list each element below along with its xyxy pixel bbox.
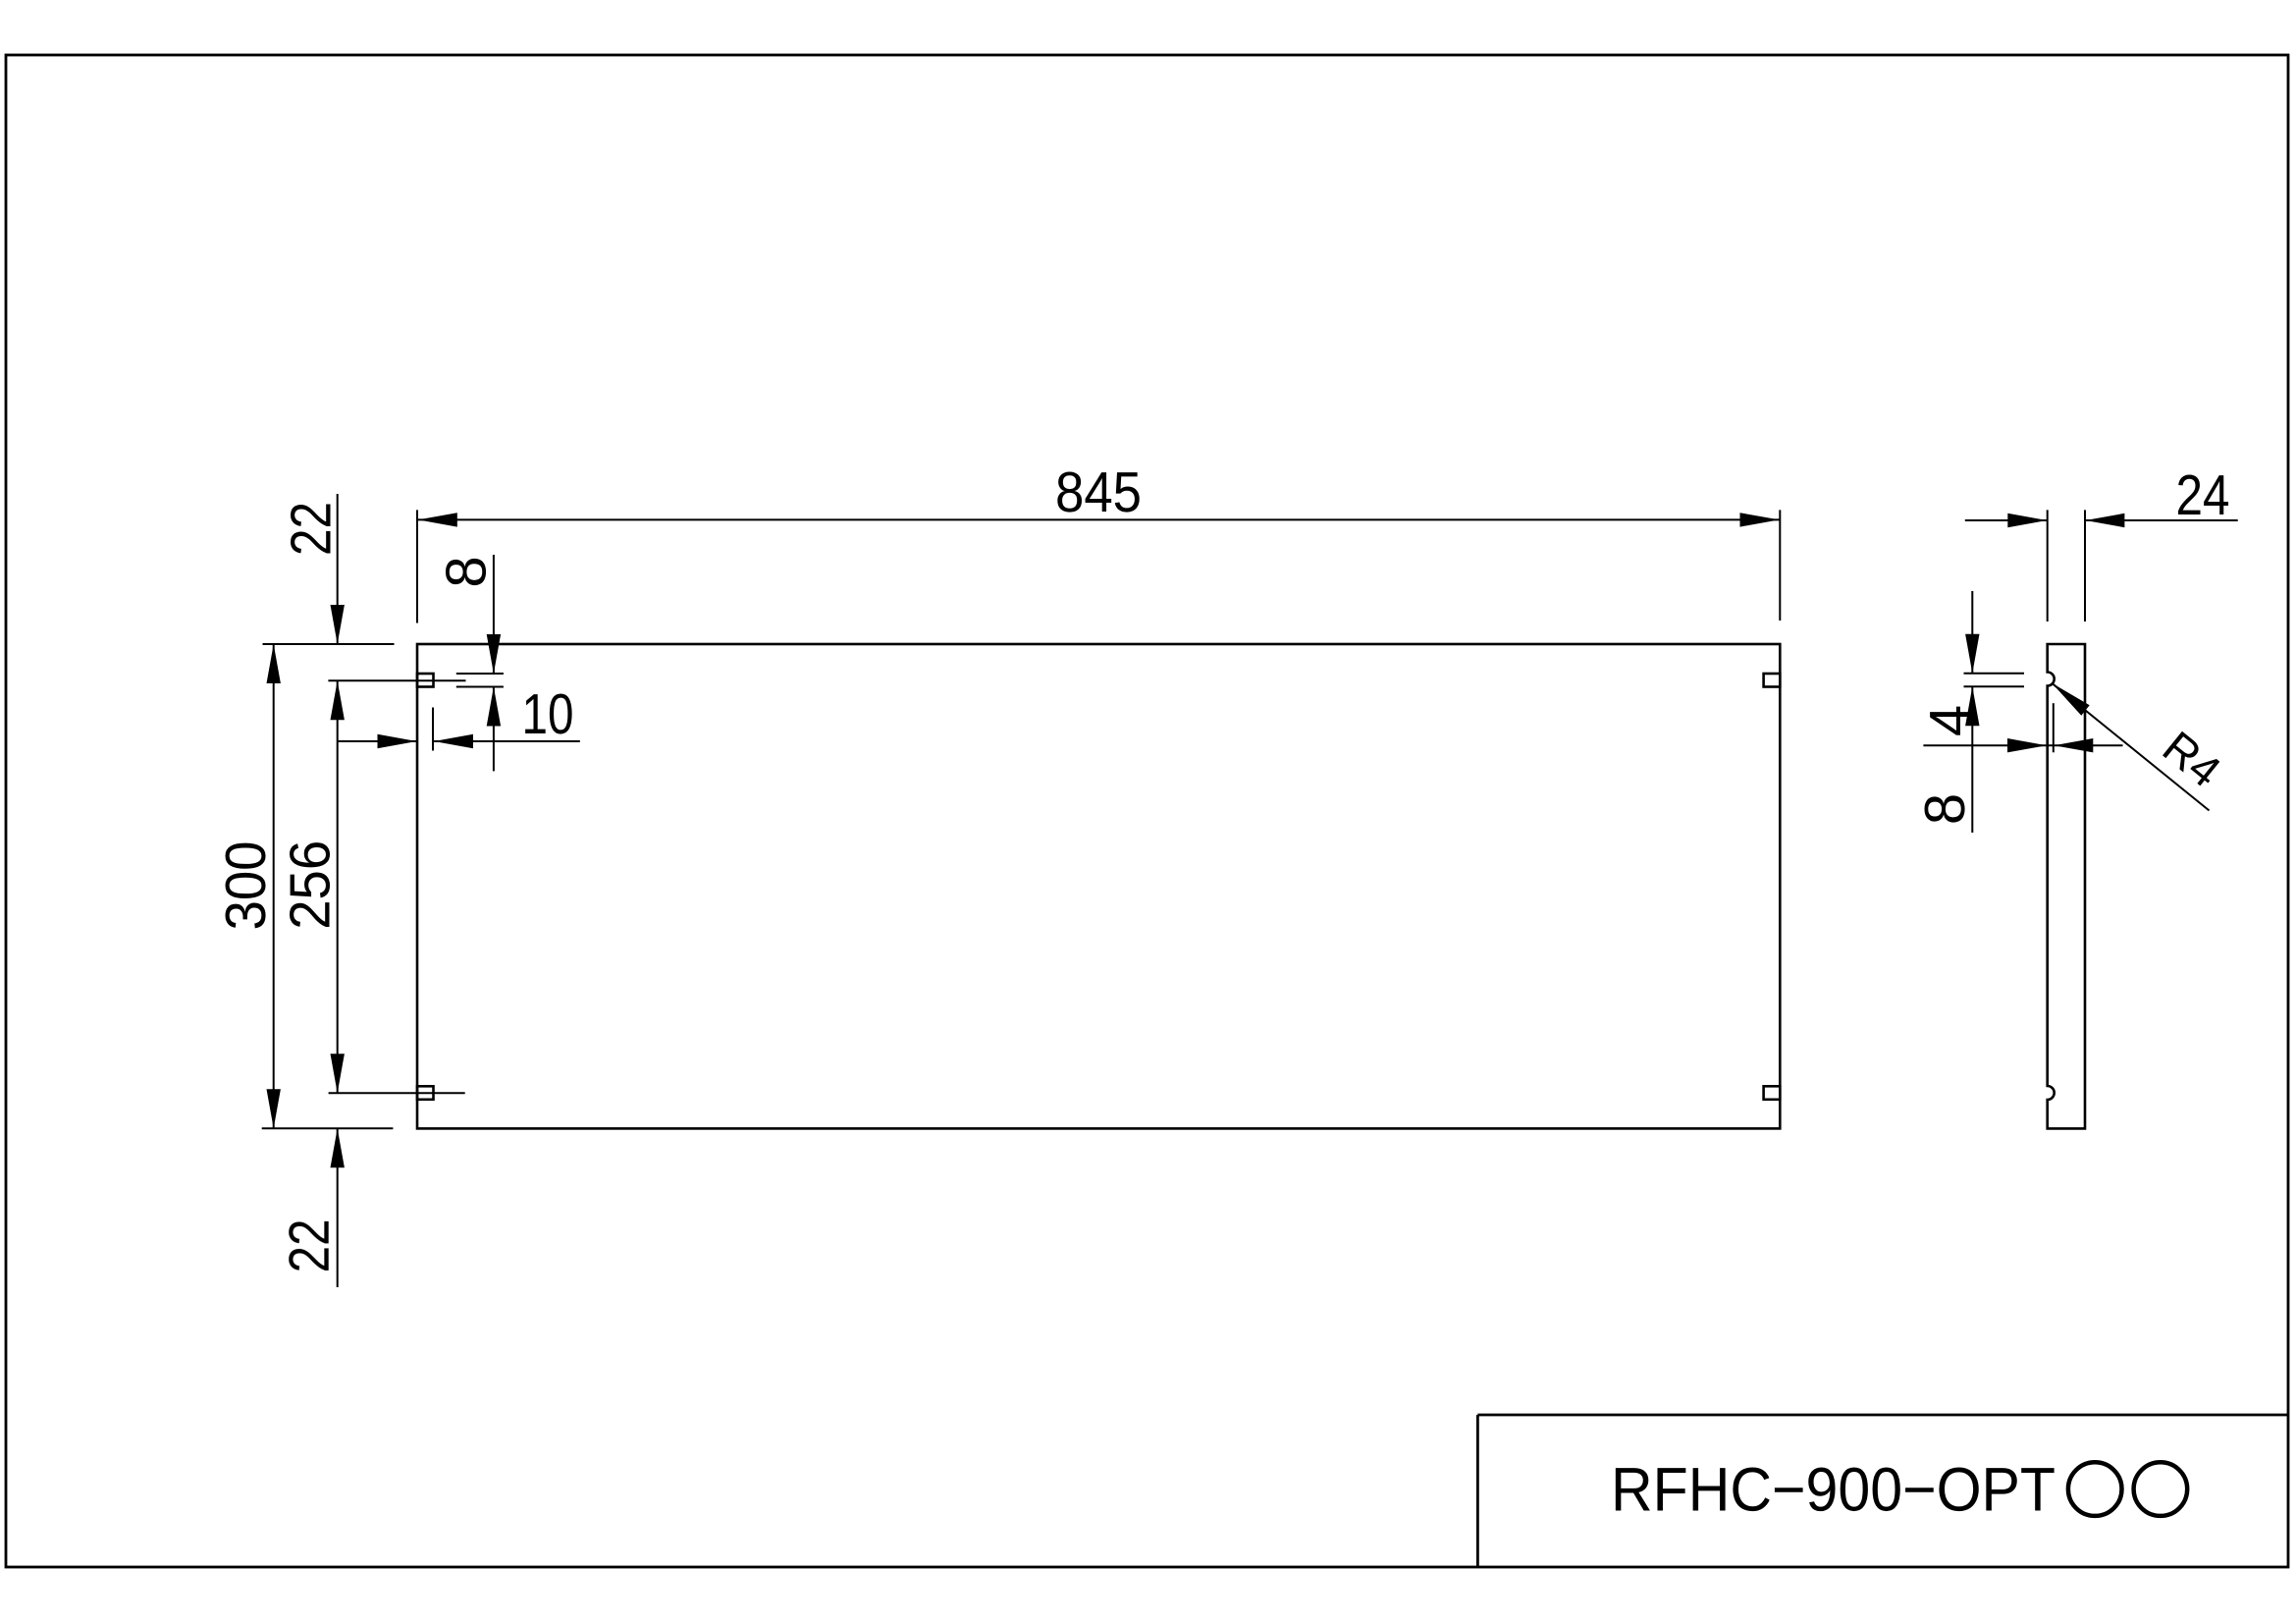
svg-text:RFHC−900−OPT: RFHC−900−OPT (1611, 1455, 2056, 1524)
svg-text:R4: R4 (2154, 721, 2230, 796)
svg-text:24: 24 (2176, 463, 2230, 527)
svg-text:300: 300 (214, 841, 278, 931)
svg-text:845: 845 (1055, 460, 1142, 524)
svg-text:22: 22 (278, 1218, 342, 1272)
svg-text:8: 8 (1913, 793, 1977, 825)
svg-text:10: 10 (522, 682, 574, 746)
svg-text:256: 256 (278, 840, 342, 930)
svg-text:4: 4 (1918, 705, 1982, 736)
svg-text:8: 8 (434, 556, 498, 587)
svg-text:22: 22 (280, 502, 344, 556)
